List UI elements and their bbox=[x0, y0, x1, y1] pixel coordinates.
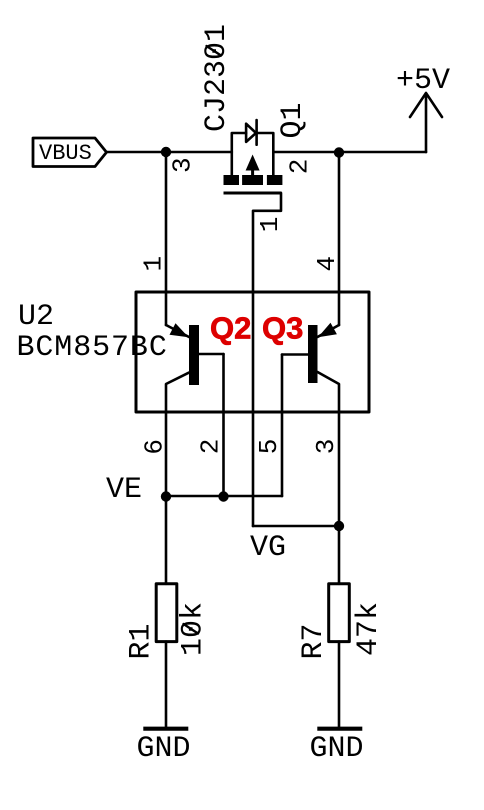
svg-text:6: 6 bbox=[140, 439, 170, 455]
transistor Q3 emitter arrow bbox=[318, 323, 337, 338]
transistor Q1 contact pads bbox=[224, 175, 240, 185]
transistor Q3 base lead bbox=[282, 353, 308, 356]
transistor Q3 collector diagonal bbox=[318, 372, 340, 412]
junction dot VE left bbox=[161, 491, 171, 501]
transistor Q2 collector diagonal bbox=[166, 373, 189, 412]
wire +5V to junction bbox=[339, 151, 426, 154]
transistor Q2 emitter arrow bbox=[170, 323, 189, 337]
transistor Q3 emitter diagonal bbox=[318, 325, 340, 337]
transistor Q2 emitter diagonal bbox=[166, 325, 189, 337]
svg-text:+5V: +5V bbox=[396, 64, 450, 98]
svg-text:2: 2 bbox=[284, 159, 314, 175]
op-amp U2 box outline bbox=[136, 292, 369, 412]
svg-text:Q3: Q3 bbox=[262, 311, 303, 346]
svg-text:3: 3 bbox=[167, 157, 197, 173]
transistor Q3 base plate bbox=[308, 325, 318, 383]
junction dot VBUS node bbox=[161, 147, 171, 157]
wire U2 pin6 down through VE to R1 bbox=[165, 412, 168, 584]
transistor Q1 gate bar and lead bbox=[224, 192, 282, 195]
svg-text:U2: U2 bbox=[18, 300, 54, 334]
svg-text:VG: VG bbox=[250, 531, 286, 565]
svg-text:4: 4 bbox=[312, 256, 342, 272]
svg-text:VE: VE bbox=[106, 473, 142, 507]
transistor Q2 base plate bbox=[189, 325, 199, 385]
svg-text:R7: R7 bbox=[297, 623, 331, 659]
wire U2 pin2 to VE bbox=[222, 354, 225, 496]
ground symbol right bbox=[317, 727, 362, 731]
wire R7 to GND bbox=[338, 642, 341, 727]
resistor R1 body bbox=[156, 584, 177, 642]
ground symbol left bbox=[143, 727, 188, 731]
transistor Q2 base lead bbox=[199, 353, 224, 356]
resistor R7 body bbox=[329, 584, 350, 642]
transistor Q1 body diode bbox=[232, 120, 273, 175]
svg-text:GND: GND bbox=[309, 732, 363, 766]
svg-text:VBUS: VBUS bbox=[39, 141, 92, 166]
wire VG horizontal bbox=[253, 525, 339, 528]
wire VE horizontal bbox=[166, 495, 282, 498]
power symbol +5V arrow bbox=[410, 93, 442, 152]
wire Q1 gate lead to VG bbox=[253, 193, 281, 526]
svg-text:CJ2301: CJ2301 bbox=[200, 24, 234, 132]
junction dot +5V node bbox=[334, 147, 344, 157]
wire junction to Q1 pin2 bbox=[273, 151, 339, 154]
svg-text:R1: R1 bbox=[125, 623, 159, 659]
svg-text:47k: 47k bbox=[352, 602, 386, 656]
svg-text:1: 1 bbox=[139, 256, 169, 272]
svg-text:GND: GND bbox=[136, 732, 190, 766]
svg-text:BCM857BC: BCM857BC bbox=[17, 331, 168, 365]
wire Q1 pin2 branch down to U2 pin4 bbox=[338, 152, 341, 325]
svg-text:2: 2 bbox=[196, 439, 226, 455]
wire R1 to GND bbox=[165, 642, 168, 727]
VBUS flag bbox=[33, 138, 107, 167]
transistor Q1 substrate arrow bbox=[246, 155, 260, 171]
wire VBUS flag to Q1 pin3 bbox=[107, 151, 232, 154]
wire U2 pin5 to VE bbox=[281, 355, 284, 497]
svg-text:Q2: Q2 bbox=[210, 311, 251, 346]
svg-text:5: 5 bbox=[254, 439, 284, 455]
svg-text:3: 3 bbox=[311, 439, 341, 455]
junction dot VE middle bbox=[218, 491, 228, 501]
wire Q1 pin3 branch down to U2 pin1 bbox=[165, 152, 168, 325]
junction dot VG bbox=[334, 521, 344, 531]
svg-text:1: 1 bbox=[255, 217, 285, 233]
wire U2 pin3 down through VG to R7 bbox=[338, 412, 341, 584]
svg-text:Q1: Q1 bbox=[276, 102, 310, 138]
svg-text:10k: 10k bbox=[177, 602, 211, 656]
